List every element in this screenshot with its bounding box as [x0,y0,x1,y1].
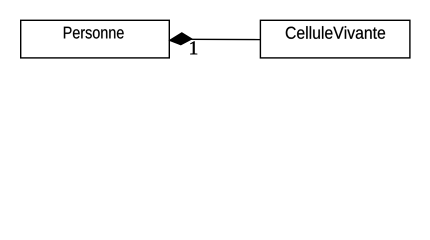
rect: class border CelluleVivante [260,20,410,58]
class name text "Personne" [64,27,124,39]
class box CelluleVivante [260,20,410,58]
class box Personne [21,20,170,58]
multiplicity label 1 [190,41,197,54]
class name text "CelluleVivante" [286,26,385,39]
wire: association line Personne to CelluleVivante [189,38,261,40]
composition diamond at Personne [170,33,192,45]
rect: class border Personne [21,20,170,58]
